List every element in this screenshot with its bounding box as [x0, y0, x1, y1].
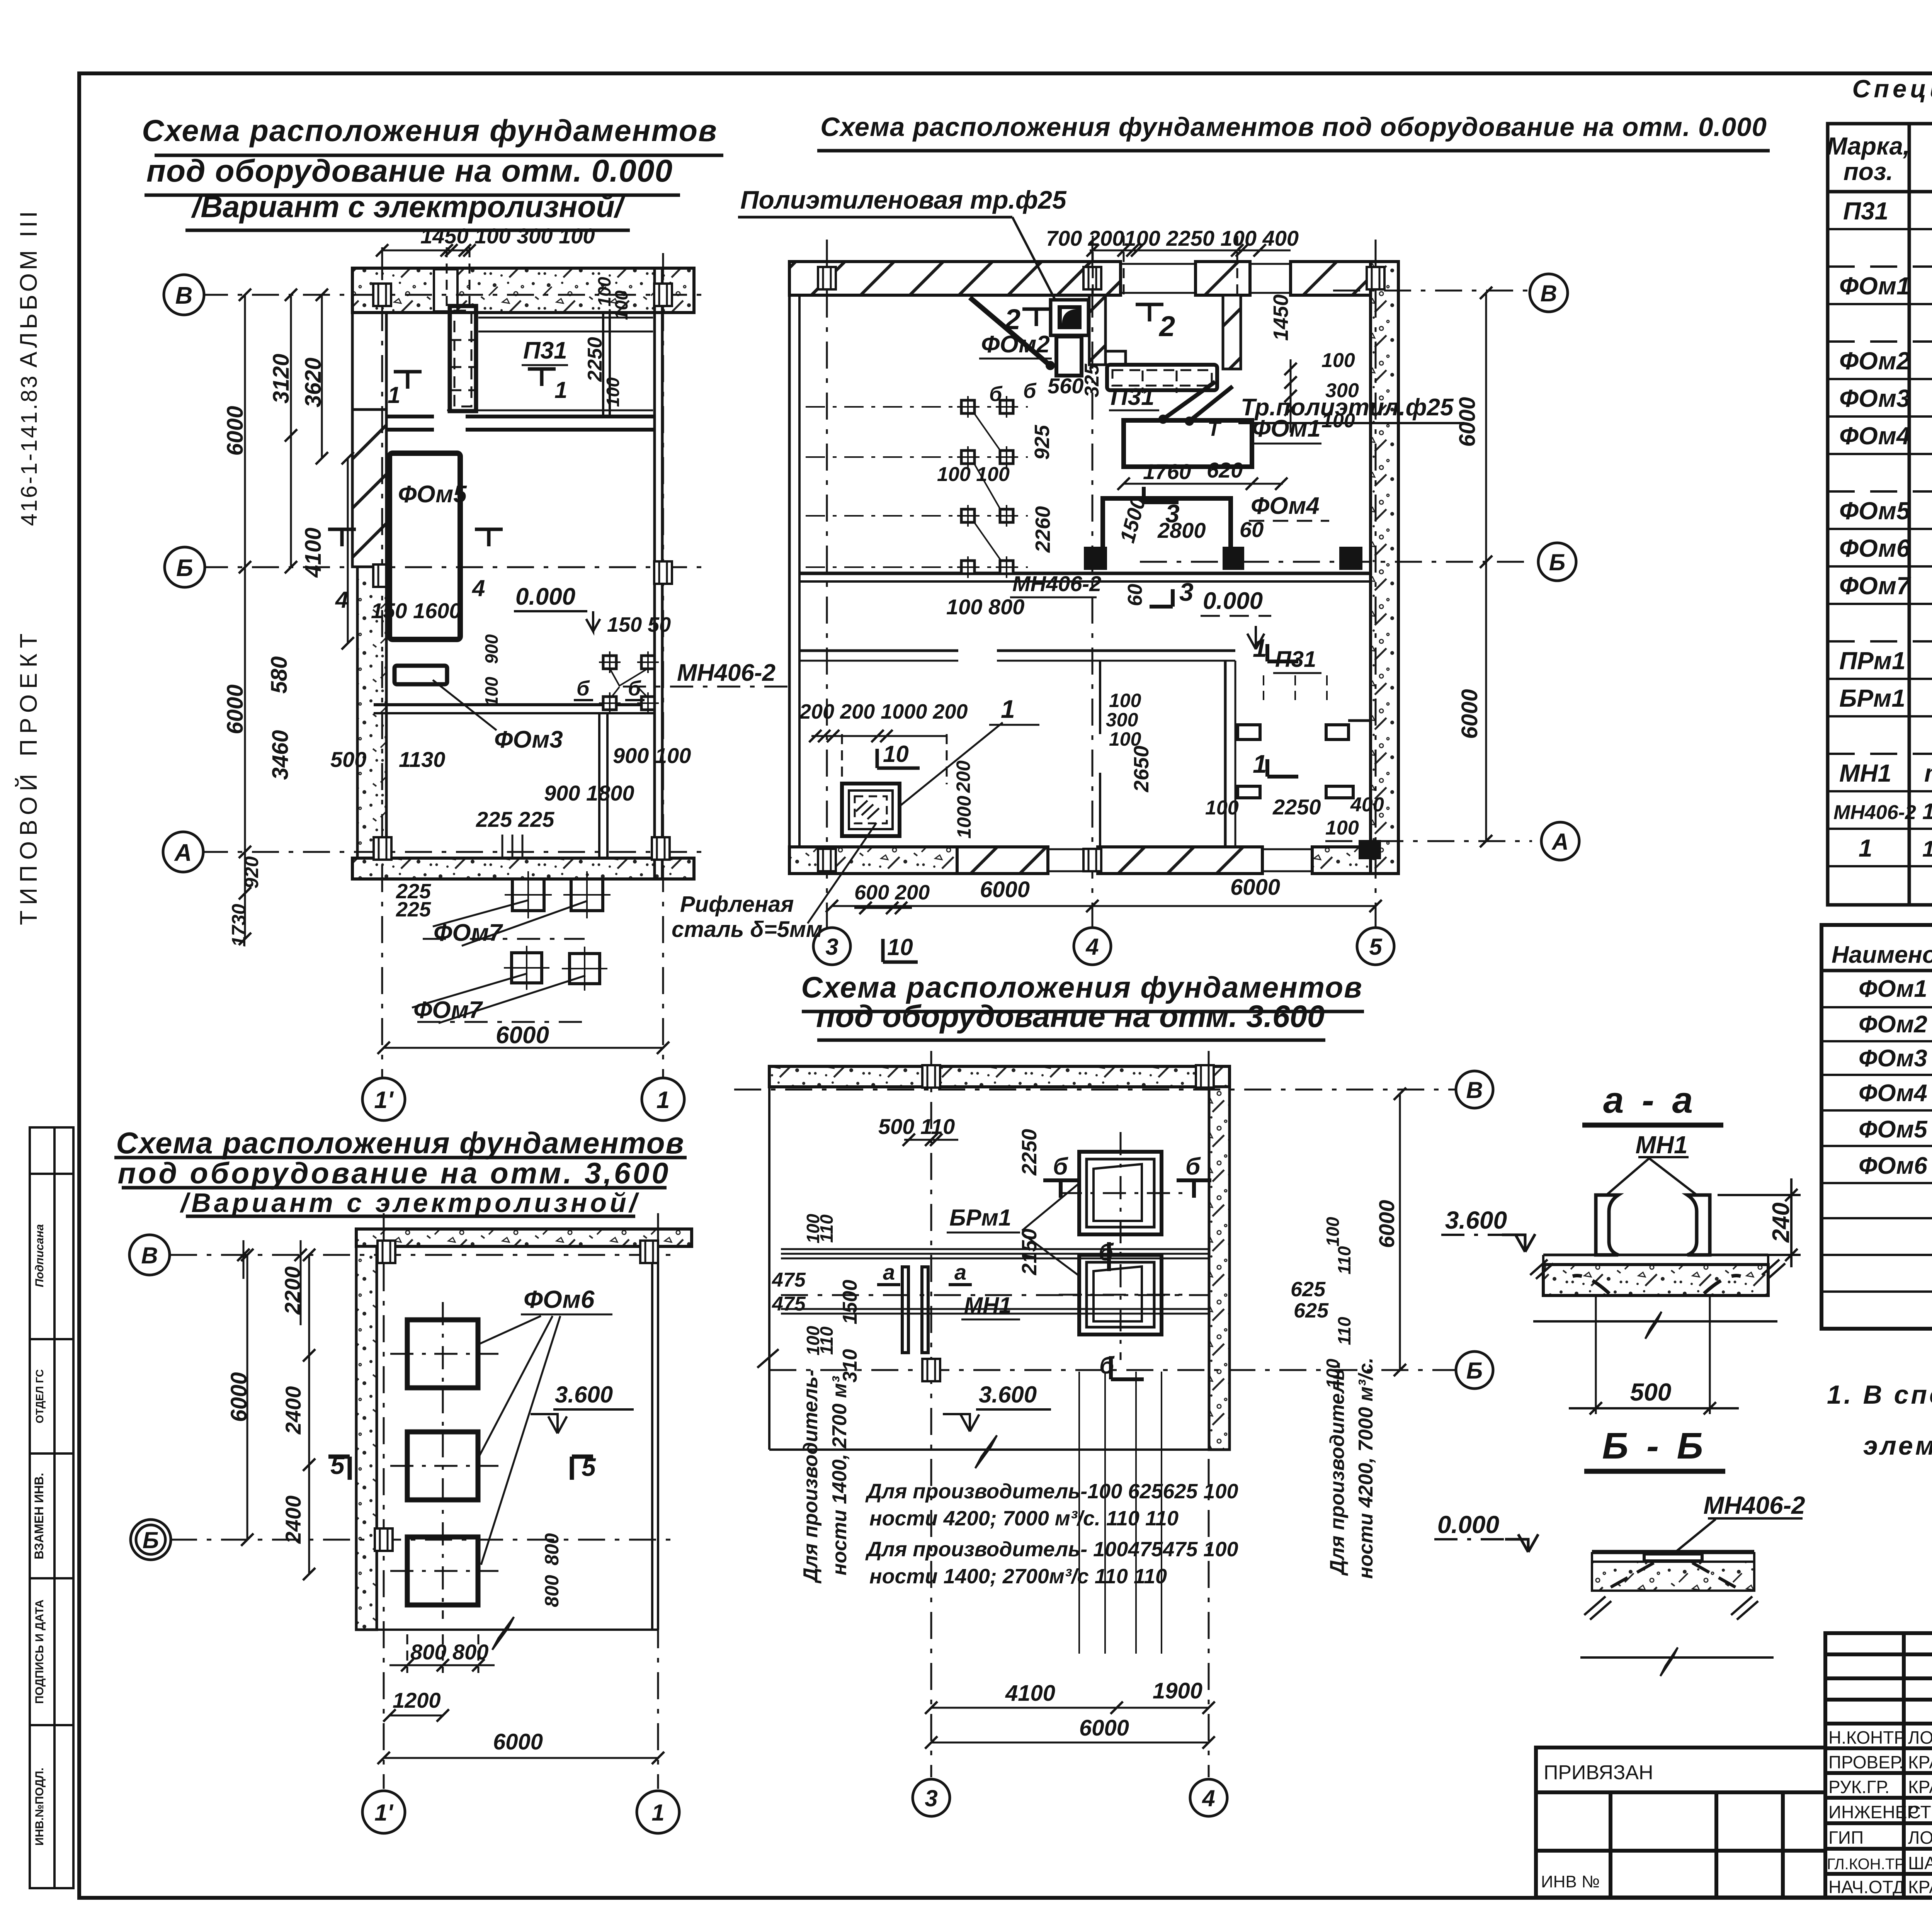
svg-text:ФОм4: ФОм4	[1839, 422, 1910, 450]
svg-text:/Вариант с электролизной/: /Вариант с электролизной/	[191, 189, 626, 224]
svg-text:100 100: 100 100	[937, 463, 1010, 486]
svg-text:60: 60	[1124, 584, 1146, 606]
svg-text:ГЛ.КОН.ТР: ГЛ.КОН.ТР	[1827, 1856, 1905, 1873]
svg-text:1: 1	[1001, 695, 1015, 723]
svg-text:620: 620	[1207, 458, 1243, 482]
svg-text:ТИПОВОЙ ПРОЕКТ: ТИПОВОЙ ПРОЕКТ	[15, 628, 42, 925]
svg-text:БРм1: БРм1	[949, 1205, 1011, 1231]
svg-text:150 50: 150 50	[607, 613, 671, 636]
svg-text:1. В спецификации в скобках: 1. В спецификации в скобках указано коли…	[1827, 1380, 1932, 1409]
svg-text:800: 800	[541, 1575, 563, 1607]
svg-text:2250: 2250	[1272, 795, 1321, 819]
svg-text:60: 60	[1240, 517, 1264, 542]
svg-text:МН406-2: МН406-2	[677, 660, 776, 686]
svg-text:под оборудование на отм. 3,600: под оборудование на отм. 3,600	[117, 1157, 670, 1190]
svg-text:1: 1	[656, 1087, 670, 1113]
svg-text:а: а	[954, 1260, 966, 1284]
svg-text:3120: 3120	[269, 354, 294, 403]
svg-text:100: 100	[1109, 690, 1141, 711]
svg-text:ПОДПИСЬ И ДАТА: ПОДПИСЬ И ДАТА	[33, 1600, 46, 1704]
svg-text:Марка,: Марка,	[1827, 132, 1910, 160]
svg-text:ФОм6: ФОм6	[1839, 534, 1910, 562]
svg-text:6000: 6000	[223, 684, 248, 734]
svg-text:1: 1	[554, 377, 567, 403]
svg-text:2250: 2250	[584, 337, 606, 382]
svg-text:ВЗАМЕН ИНВ.: ВЗАМЕН ИНВ.	[32, 1473, 46, 1559]
svg-text:2400: 2400	[281, 1386, 305, 1435]
svg-text:Полиэтиленовая тр.ф25: Полиэтиленовая тр.ф25	[740, 185, 1067, 214]
svg-text:900 100: 900 100	[613, 743, 691, 768]
svg-text:100: 100	[1323, 1217, 1343, 1246]
svg-text:500 110: 500 110	[878, 1114, 955, 1139]
svg-text:3460: 3460	[268, 730, 293, 780]
svg-text:б: б	[1099, 1239, 1114, 1266]
svg-text:ОТДЕЛ ГС: ОТДЕЛ ГС	[34, 1369, 46, 1423]
svg-text:1': 1'	[374, 1087, 394, 1113]
svg-text:4100: 4100	[301, 527, 326, 578]
svg-text:Б - Б: Б - Б	[1602, 1425, 1707, 1467]
svg-text:В: В	[141, 1243, 158, 1268]
svg-text:475: 475	[772, 1269, 806, 1291]
svg-text:МН406-2: МН406-2	[1703, 1491, 1805, 1519]
svg-text:ФОм6: ФОм6	[1859, 1153, 1927, 1179]
svg-text:Б: Б	[176, 555, 193, 581]
svg-text:100: 100	[481, 677, 502, 706]
svg-text:т.п: т.п	[1924, 759, 1932, 787]
svg-text:а: а	[883, 1260, 895, 1284]
svg-text:под оборудование на отм. 3.600: под оборудование на отм. 3.600	[816, 999, 1325, 1034]
svg-text:сталь δ=5мм: сталь δ=5мм	[672, 917, 823, 942]
svg-text:2: 2	[1158, 310, 1175, 342]
svg-text:1: 1	[1859, 834, 1872, 862]
svg-text:ФОм1: ФОм1	[1859, 976, 1927, 1002]
svg-text:3: 3	[825, 934, 838, 960]
svg-text:б: б	[1023, 379, 1037, 403]
svg-text:1.400-15.В1.420-03: 1.400-15.В1.420-03	[1922, 799, 1932, 824]
svg-text:Для производитель- 100475475 1: Для производитель- 100475475 100	[865, 1538, 1238, 1561]
svg-text:925: 925	[1031, 425, 1054, 460]
svg-text:П31: П31	[1275, 647, 1316, 672]
svg-text:б: б	[989, 382, 1003, 406]
svg-text:АЛЬБОМ III: АЛЬБОМ III	[15, 208, 42, 368]
svg-text:ФОм5: ФОм5	[1839, 497, 1911, 525]
svg-text:4: 4	[1202, 1785, 1215, 1811]
svg-text:0.000: 0.000	[1437, 1511, 1499, 1538]
svg-text:ЛОУЦКЕР: ЛОУЦКЕР	[1908, 1727, 1932, 1748]
svg-text:6000: 6000	[1230, 875, 1280, 900]
svg-text:МН1: МН1	[1839, 759, 1891, 787]
svg-text:Подписана: Подписана	[33, 1224, 46, 1287]
svg-text:1: 1	[1253, 634, 1267, 662]
svg-text:П31: П31	[1111, 384, 1155, 410]
svg-text:б: б	[628, 677, 641, 700]
svg-text:1450 100 300 100: 1450 100 300 100	[420, 224, 595, 248]
svg-text:2800: 2800	[1157, 518, 1206, 542]
svg-text:Б: Б	[1549, 549, 1565, 575]
svg-text:4: 4	[335, 587, 348, 613]
svg-text:ФОм1: ФОм1	[1839, 272, 1910, 300]
svg-text:6000: 6000	[493, 1729, 543, 1754]
svg-text:СТРИГИНА: СТРИГИНА	[1908, 1802, 1932, 1822]
svg-text:ФОм2: ФОм2	[1859, 1011, 1927, 1038]
svg-text:Для производитель-: Для производитель-	[799, 1370, 822, 1584]
svg-text:1900: 1900	[1153, 1678, 1202, 1703]
svg-text:560: 560	[1048, 374, 1083, 398]
svg-text:800 800: 800 800	[410, 1640, 488, 1664]
svg-text:2250: 2250	[1018, 1129, 1041, 1176]
svg-text:НАЧ.ОТД: НАЧ.ОТД	[1828, 1877, 1905, 1897]
svg-text:ФОм7: ФОм7	[1839, 572, 1912, 600]
svg-text:0.000: 0.000	[1203, 588, 1263, 614]
svg-text:2400: 2400	[281, 1496, 305, 1544]
svg-text:МН406-2: МН406-2	[1012, 571, 1101, 596]
svg-text:625: 625	[1291, 1278, 1326, 1301]
svg-text:110: 110	[816, 1214, 837, 1243]
svg-text:1760: 1760	[1143, 459, 1191, 484]
svg-text:580: 580	[267, 656, 292, 694]
svg-text:ности 1400, 2700 м³: ности 1400, 2700 м³	[828, 1376, 851, 1576]
svg-text:Для производитель-100 625625 1: Для производитель-100 625625 100	[865, 1480, 1238, 1503]
svg-text:100: 100	[1205, 797, 1239, 819]
svg-text:ФОм1: ФОм1	[1252, 415, 1321, 442]
svg-text:100: 100	[611, 290, 631, 320]
svg-text:100 800: 100 800	[946, 595, 1024, 619]
svg-text:П31: П31	[1843, 197, 1888, 225]
svg-text:ИНВ №: ИНВ №	[1541, 1872, 1600, 1891]
svg-text:ФОм4: ФОм4	[1859, 1080, 1927, 1107]
svg-text:В: В	[175, 282, 193, 309]
svg-text:2150: 2150	[1018, 1229, 1041, 1275]
svg-text:4: 4	[472, 575, 485, 601]
svg-text:225 225: 225 225	[476, 807, 554, 831]
svg-text:Рифленая: Рифленая	[680, 892, 794, 917]
svg-text:600 200: 600 200	[854, 881, 930, 904]
svg-text:500: 500	[1630, 1378, 1672, 1406]
svg-text:1500: 1500	[839, 1280, 861, 1324]
svg-text:700 200100 2250 100 400: 700 200100 2250 100 400	[1046, 226, 1299, 250]
svg-text:10: 10	[887, 934, 913, 960]
svg-text:под оборудование на отм. 0.000: под оборудование на отм. 0.000	[146, 153, 673, 189]
svg-text:300: 300	[1106, 709, 1138, 731]
svg-text:6000: 6000	[1457, 689, 1482, 739]
svg-text:4100: 4100	[1005, 1681, 1055, 1706]
svg-text:ФОм5: ФОм5	[1859, 1116, 1928, 1143]
svg-text:110: 110	[816, 1326, 837, 1355]
svg-text:Спецификация элементов к схема: Спецификация элементов к схемам располож…	[1852, 75, 1932, 103]
svg-text:ФОм4: ФОм4	[1251, 493, 1320, 519]
svg-text:КРАСНОВА: КРАСНОВА	[1908, 1777, 1932, 1797]
svg-text:100: 100	[1325, 817, 1359, 839]
svg-text:900 1800: 900 1800	[544, 781, 634, 805]
svg-text:6000: 6000	[223, 406, 248, 456]
svg-text:ФОм3: ФОм3	[494, 726, 563, 753]
svg-text:Схема расположения фундаментов: Схема расположения фундаментов	[116, 1126, 684, 1160]
svg-text:2: 2	[1004, 303, 1020, 335]
svg-text:240: 240	[1768, 1202, 1794, 1243]
svg-text:Б: Б	[1466, 1358, 1483, 1384]
svg-text:БРм1: БРм1	[1839, 684, 1905, 712]
svg-text:100: 100	[603, 377, 623, 407]
svg-text:200: 200	[952, 760, 974, 793]
svg-text:3.600: 3.600	[555, 1382, 613, 1408]
svg-text:Н.КОНТР: Н.КОНТР	[1828, 1727, 1906, 1748]
svg-text:1.400-15 В1.550-04: 1.400-15 В1.550-04	[1922, 836, 1932, 862]
svg-text:0.000: 0.000	[515, 583, 575, 610]
svg-text:В: В	[1466, 1077, 1483, 1103]
svg-text:ПРОВЕР.: ПРОВЕР.	[1828, 1752, 1904, 1772]
svg-text:МН1: МН1	[1635, 1131, 1687, 1159]
svg-text:1: 1	[1253, 750, 1267, 778]
svg-text:100: 100	[1321, 410, 1355, 432]
svg-text:1: 1	[388, 382, 400, 408]
svg-text:ФОм5: ФОм5	[398, 481, 467, 508]
svg-text:1130: 1130	[399, 747, 445, 772]
svg-text:475: 475	[772, 1293, 806, 1315]
svg-text:ФОм3: ФОм3	[1839, 384, 1910, 412]
svg-text:ФОм3: ФОм3	[1859, 1045, 1927, 1072]
svg-text:300: 300	[1325, 379, 1359, 402]
svg-text:110: 110	[1334, 1246, 1354, 1275]
svg-text:ПРм1: ПРм1	[1839, 647, 1906, 675]
svg-text:900: 900	[481, 634, 502, 664]
svg-text:800: 800	[541, 1533, 563, 1566]
svg-text:ности 1400; 2700м³/с 110: ности 1400; 2700м³/с 110 110	[869, 1565, 1167, 1588]
svg-text:100: 100	[1321, 349, 1355, 372]
svg-text:Схема расположения фундаментов: Схема расположения фундаментов	[142, 113, 717, 148]
svg-text:2260: 2260	[1031, 506, 1054, 553]
svg-text:ШАПИРО: ШАПИРО	[1908, 1853, 1932, 1873]
svg-text:поз.: поз.	[1844, 158, 1893, 185]
svg-text:6000: 6000	[1374, 1200, 1399, 1248]
svg-text:920: 920	[241, 856, 262, 889]
svg-text:ИНВ.№ПОДЛ.: ИНВ.№ПОДЛ.	[33, 1768, 46, 1846]
svg-text:1730: 1730	[228, 904, 250, 947]
svg-text:1': 1'	[374, 1800, 393, 1826]
svg-text:500: 500	[330, 747, 366, 772]
svg-text:1: 1	[651, 1800, 664, 1826]
svg-text:КРАСАВИН: КРАСАВИН	[1908, 1877, 1932, 1897]
svg-text:Наименование: Наименование	[1832, 942, 1932, 968]
svg-text:Т: Т	[1207, 417, 1222, 440]
svg-text:/Вариант с электролизной/: /Вариант с электролизной/	[180, 1188, 640, 1218]
svg-text:110: 110	[1334, 1317, 1354, 1345]
svg-text:П31: П31	[523, 337, 567, 364]
svg-text:400: 400	[1350, 794, 1384, 816]
svg-text:б: б	[1053, 1153, 1068, 1180]
svg-text:ФОм6: ФОм6	[524, 1285, 595, 1313]
svg-text:ГИП: ГИП	[1828, 1827, 1864, 1848]
svg-text:3.600: 3.600	[979, 1382, 1037, 1408]
svg-text:Б: Б	[143, 1527, 159, 1553]
svg-text:150 1600: 150 1600	[371, 598, 461, 623]
svg-text:МН1: МН1	[964, 1293, 1011, 1318]
svg-text:МН406-2: МН406-2	[1833, 801, 1916, 824]
svg-text:ности 4200, 7000 м³/с.: ности 4200, 7000 м³/с.	[1355, 1358, 1377, 1579]
svg-text:а - а: а - а	[1603, 1079, 1697, 1121]
svg-text:6000: 6000	[496, 1022, 549, 1049]
svg-text:ИНЖЕНЕР: ИНЖЕНЕР	[1828, 1802, 1919, 1822]
svg-text:3: 3	[1179, 578, 1194, 606]
svg-text:225: 225	[396, 898, 431, 921]
svg-text:РУК.ГР.: РУК.ГР.	[1828, 1777, 1889, 1797]
svg-text:200 200 1000 200: 200 200 1000 200	[799, 700, 968, 723]
svg-text:5: 5	[1369, 934, 1383, 960]
svg-text:ЛОУЦКЕР: ЛОУЦКЕР	[1908, 1827, 1932, 1848]
svg-text:625: 625	[1294, 1299, 1329, 1322]
svg-text:6000: 6000	[980, 877, 1030, 902]
svg-text:3.600: 3.600	[1445, 1206, 1507, 1234]
svg-text:б: б	[577, 677, 590, 700]
svg-text:325: 325	[1081, 364, 1103, 398]
svg-text:А: А	[1551, 829, 1568, 855]
svg-text:10: 10	[883, 741, 909, 767]
svg-text:ФОм2: ФОм2	[1839, 347, 1910, 375]
svg-text:1000: 1000	[953, 796, 975, 838]
svg-text:416-1-141.83: 416-1-141.83	[17, 374, 42, 526]
svg-text:А: А	[174, 840, 192, 866]
svg-text:Для производитель-: Для производитель-	[1326, 1362, 1349, 1576]
svg-text:ности 4200; 7000 м³/с. 110: ности 4200; 7000 м³/с. 110 110	[869, 1507, 1179, 1530]
svg-text:4: 4	[1085, 934, 1099, 960]
svg-text:3: 3	[925, 1785, 937, 1811]
svg-text:КРАСНОВА: КРАСНОВА	[1908, 1752, 1932, 1772]
svg-text:В: В	[1540, 280, 1557, 306]
svg-text:6000: 6000	[1079, 1715, 1129, 1741]
svg-text:б: б	[1185, 1153, 1201, 1180]
svg-text:1200: 1200	[393, 1688, 441, 1712]
svg-text:ПРИВЯЗАН: ПРИВЯЗАН	[1544, 1761, 1653, 1784]
svg-text:элементов для варианта с э: элементов для варианта с электролизной	[1863, 1431, 1932, 1460]
svg-text:2650: 2650	[1130, 746, 1153, 792]
svg-text:Схема расположения фундаментов: Схема расположения фундаментов под обору…	[820, 112, 1767, 142]
svg-text:1450: 1450	[1269, 294, 1293, 341]
